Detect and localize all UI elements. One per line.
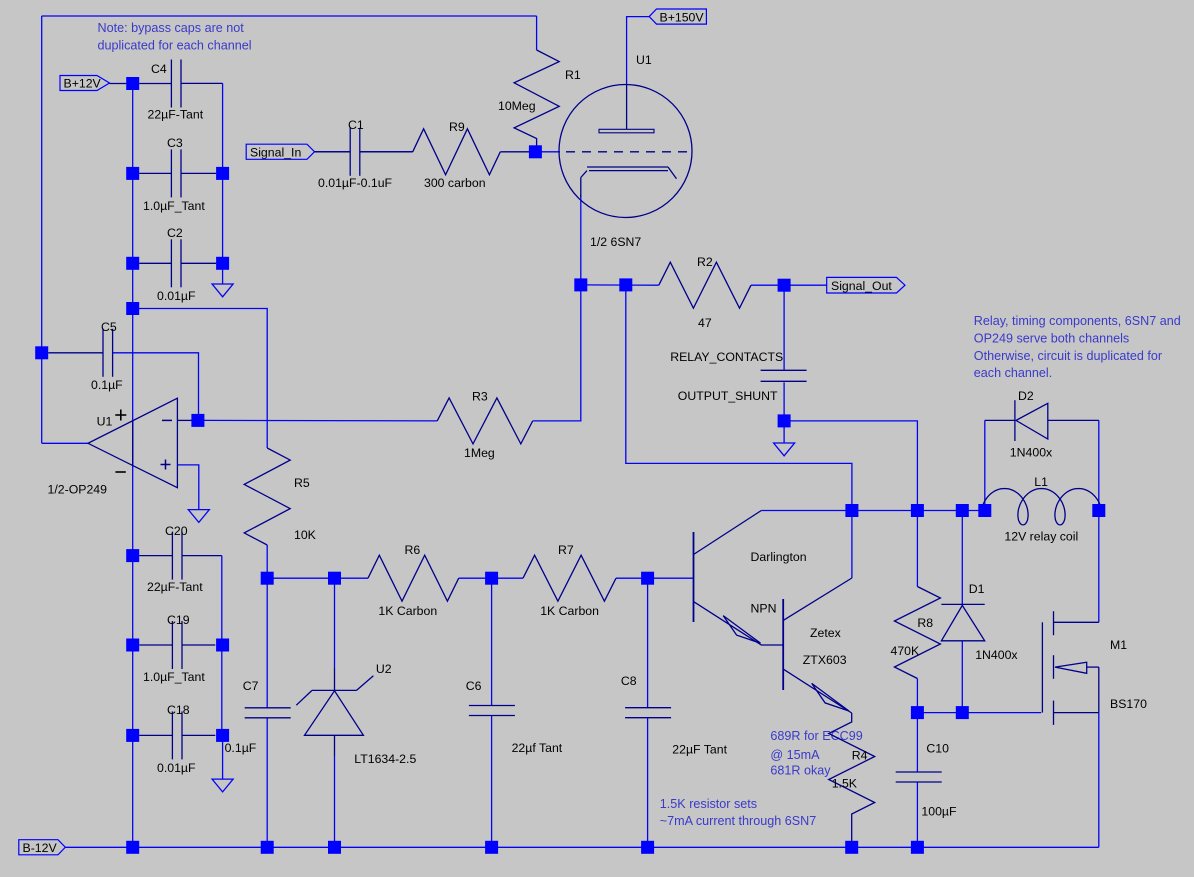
capacitor C1 xyxy=(315,118,413,190)
svg-text:100µF: 100µF xyxy=(921,805,957,819)
shunt reference U2 LT1634-2.5 xyxy=(296,662,416,766)
svg-text:C20: C20 xyxy=(165,524,188,538)
svg-text:R8: R8 xyxy=(917,616,933,630)
wire B+150V feed xyxy=(627,17,650,85)
wire C8 drop top xyxy=(647,578,649,708)
svg-text:681R okay: 681R okay xyxy=(770,764,831,778)
transistor Q2 Zetex ZTX603 xyxy=(783,578,852,713)
capacitor C4 xyxy=(139,60,222,122)
svg-text:C5: C5 xyxy=(101,320,117,334)
svg-text:1.5K resistor sets: 1.5K resistor sets xyxy=(660,797,757,811)
wire output shunt top xyxy=(783,285,785,370)
capacitor C10 xyxy=(896,742,957,819)
resistor R3 xyxy=(437,390,533,461)
svg-text:0.01µF: 0.01µF xyxy=(157,761,196,775)
wire shunt ground stub xyxy=(783,421,785,443)
svg-text:22µF-Tant: 22µF-Tant xyxy=(147,580,203,594)
svg-text:@ 15mA: @ 15mA xyxy=(770,748,820,762)
svg-text:C18: C18 xyxy=(167,703,190,717)
svg-text:300 carbon: 300 carbon xyxy=(424,176,486,190)
wire left feedback drop xyxy=(41,16,43,443)
wire R6-R7 mid xyxy=(459,577,523,579)
port Signal_Out xyxy=(827,277,905,293)
wire output shunt bottom xyxy=(783,382,785,421)
port B-12V xyxy=(19,840,66,855)
svg-text:C4: C4 xyxy=(151,62,167,76)
wire U2 top lead xyxy=(334,578,336,668)
svg-text:C6: C6 xyxy=(466,679,482,693)
svg-text:1K Carbon: 1K Carbon xyxy=(378,604,437,618)
wire R3 left xyxy=(204,419,437,422)
svg-text:duplicated for each channel: duplicated for each channel xyxy=(98,39,252,53)
svg-text:M1: M1 xyxy=(1110,638,1127,652)
svg-text:D1: D1 xyxy=(969,582,985,596)
resistor R8 xyxy=(891,587,941,679)
svg-text:689R for ECC99: 689R for ECC99 xyxy=(770,729,862,743)
svg-text:C10: C10 xyxy=(926,742,949,756)
svg-text:1/2 6SN7: 1/2 6SN7 xyxy=(590,235,641,249)
svg-text:~7mA current through 6SN7: ~7mA current through 6SN7 xyxy=(660,814,816,828)
wire relay row xyxy=(852,510,985,512)
svg-text:22µF-Tant: 22µF-Tant xyxy=(148,108,204,122)
svg-text:Signal_In: Signal_In xyxy=(250,146,301,160)
svg-text:1Meg: 1Meg xyxy=(464,446,495,460)
svg-text:0.1µF: 0.1µF xyxy=(225,741,257,755)
capacitor C2 xyxy=(139,226,216,303)
resistor R1 xyxy=(498,16,581,152)
port B+150V xyxy=(649,9,706,24)
wire R3 right to cathode node xyxy=(533,285,581,421)
wire R8 bottom lead xyxy=(916,679,918,713)
mosfet M1 BS170 xyxy=(1042,611,1147,725)
svg-text:0.01µF: 0.01µF xyxy=(157,289,196,303)
wire D2 right drop xyxy=(1098,420,1100,510)
svg-text:LT1634-2.5: LT1634-2.5 xyxy=(354,752,416,766)
ground at op-amp +input xyxy=(188,510,209,523)
op-amp U1 1/2-OP249 xyxy=(48,398,199,509)
wire grid lead xyxy=(535,151,560,153)
svg-text:L1: L1 xyxy=(1034,475,1048,489)
capacitor C20 xyxy=(139,524,222,735)
capacitor C7 xyxy=(225,679,291,755)
svg-text:OP249 serve both channels: OP249 serve both channels xyxy=(974,331,1129,345)
ground below C18 xyxy=(212,779,233,792)
port Signal_In xyxy=(246,144,350,159)
wire D1 bottom lead xyxy=(961,641,963,713)
wire plate node down xyxy=(626,285,852,511)
svg-text:BS170: BS170 xyxy=(1110,697,1147,711)
wire bypass right rail xyxy=(222,83,224,284)
resistor R2 xyxy=(659,255,751,330)
diode D2 1N400x xyxy=(985,389,1099,460)
svg-text:22µF Tant: 22µF Tant xyxy=(672,743,727,757)
svg-text:R4: R4 xyxy=(852,749,868,763)
wire C7 drop bottom xyxy=(266,718,268,847)
wire D2 left drop xyxy=(984,420,986,510)
svg-text:C7: C7 xyxy=(243,679,259,693)
svg-text:B+12V: B+12V xyxy=(64,77,102,91)
wire C10 top lead xyxy=(916,713,918,772)
wire mosfet source drop xyxy=(1098,713,1100,848)
note relay xyxy=(974,314,1181,380)
wire cathode row xyxy=(581,284,659,286)
svg-text:1K Carbon: 1K Carbon xyxy=(540,604,599,618)
svg-text:C3: C3 xyxy=(167,136,183,150)
svg-text:RELAY_CONTACTS: RELAY_CONTACTS xyxy=(670,350,783,364)
svg-text:10Meg: 10Meg xyxy=(498,99,536,113)
svg-text:Zetex: Zetex xyxy=(810,626,842,640)
resistor R6 xyxy=(368,543,459,618)
wire R2 right to Signal_Out xyxy=(751,284,827,286)
wire mosfet drain drop xyxy=(1098,511,1100,623)
svg-text:12V relay coil: 12V relay coil xyxy=(1004,530,1078,544)
wire C6 drop top xyxy=(491,578,493,705)
note 1.5K resistor xyxy=(660,797,816,828)
wire node to R5 xyxy=(133,309,268,449)
svg-text:1N400x: 1N400x xyxy=(1010,446,1053,460)
svg-text:1N400x: 1N400x xyxy=(975,648,1018,662)
ground at output shunt xyxy=(774,443,795,456)
wire Q2 collector riser xyxy=(851,511,853,579)
note top-left xyxy=(98,21,252,53)
tube U1 1/2 6SN7 xyxy=(559,53,692,249)
svg-text:R2: R2 xyxy=(697,255,713,269)
note 689R xyxy=(770,729,862,778)
svg-text:U1: U1 xyxy=(97,415,113,429)
svg-text:OUTPUT_SHUNT: OUTPUT_SHUNT xyxy=(678,389,778,403)
resistor R9 xyxy=(360,120,536,190)
svg-text:C2: C2 xyxy=(167,226,183,240)
wire R5 bottom lead xyxy=(266,545,268,578)
capacitor C19 xyxy=(139,613,215,684)
svg-text:10K: 10K xyxy=(294,528,317,542)
wire D1 top lead xyxy=(961,511,963,605)
wire junctions xyxy=(35,77,1105,854)
port B+12V xyxy=(60,76,126,91)
svg-text:D2: D2 xyxy=(1018,389,1034,403)
svg-text:47: 47 xyxy=(698,316,712,330)
svg-text:C19: C19 xyxy=(167,613,190,627)
transistor Q1 darlington first xyxy=(694,511,807,646)
capacitor C3 xyxy=(139,136,216,213)
resistor R5 xyxy=(244,448,316,545)
svg-text:Relay, timing components, 6SN7: Relay, timing components, 6SN7 and xyxy=(974,314,1181,328)
resistor R4 xyxy=(829,713,875,847)
svg-text:R7: R7 xyxy=(558,543,574,557)
wire C7 drop top xyxy=(266,578,268,707)
wire top feedback rail xyxy=(42,15,537,17)
svg-text:R6: R6 xyxy=(405,543,421,557)
svg-text:1.5K: 1.5K xyxy=(832,777,858,791)
wire bias row xyxy=(267,577,368,579)
svg-text:U2: U2 xyxy=(376,662,392,676)
wire R7 right to base xyxy=(616,577,694,579)
svg-text:C8: C8 xyxy=(621,674,637,688)
wire cathode drop xyxy=(580,195,582,285)
capacitor C8 xyxy=(621,674,728,757)
svg-text:0.1µF: 0.1µF xyxy=(91,378,123,392)
wire C6 drop bottom xyxy=(491,716,493,848)
svg-text:each channel.: each channel. xyxy=(974,366,1052,380)
ground below C2 xyxy=(212,284,233,297)
wire C8 drop bottom xyxy=(647,718,649,848)
capacitor C18 xyxy=(139,703,222,779)
svg-text:Signal_Out: Signal_Out xyxy=(831,279,892,293)
capacitor C5 xyxy=(48,320,123,392)
wire B+12V rail vertical xyxy=(132,84,134,848)
inductor L1 relay coil xyxy=(982,475,1101,544)
svg-text:C1: C1 xyxy=(348,118,364,132)
svg-text:U1: U1 xyxy=(636,53,652,67)
wire op-amp output xyxy=(42,442,88,444)
diode D1 1N400x xyxy=(941,582,1018,662)
wire B-12V bottom rail xyxy=(65,846,1099,848)
wire C5 right to inverting input xyxy=(113,353,199,421)
capacitor C6 xyxy=(466,679,563,755)
svg-text:Darlington: Darlington xyxy=(751,550,807,564)
svg-text:ZTX603: ZTX603 xyxy=(803,653,847,667)
wire R8 top lead xyxy=(916,511,918,587)
svg-text:NPN: NPN xyxy=(751,602,777,616)
resistor R7 xyxy=(523,543,616,618)
svg-text:1.0µF_Tant: 1.0µF_Tant xyxy=(143,199,205,213)
svg-text:22µf Tant: 22µf Tant xyxy=(512,741,563,755)
svg-text:1/2-OP249: 1/2-OP249 xyxy=(48,483,108,497)
svg-text:Note: bypass caps are not: Note: bypass caps are not xyxy=(98,21,245,35)
wire shunt to relay node xyxy=(784,421,917,511)
svg-text:1.0µF_Tant: 1.0µF_Tant xyxy=(143,670,205,684)
wire darlington collector xyxy=(761,510,852,512)
wire gate row xyxy=(917,712,1041,714)
svg-text:R1: R1 xyxy=(565,68,581,82)
svg-text:B-12V: B-12V xyxy=(23,841,58,855)
svg-text:R5: R5 xyxy=(294,476,310,490)
svg-text:B+150V: B+150V xyxy=(660,10,705,24)
svg-text:R3: R3 xyxy=(472,390,488,404)
svg-text:0.01µF-0.1uF: 0.01µF-0.1uF xyxy=(318,176,393,190)
svg-text:R9: R9 xyxy=(449,120,465,134)
capacitor relay contacts / output shunt xyxy=(670,350,806,403)
wire U2 bottom lead xyxy=(334,756,336,847)
svg-text:470K: 470K xyxy=(891,644,921,658)
svg-text:Otherwise, circuit is duplicat: Otherwise, circuit is duplicated for xyxy=(974,349,1162,363)
wire C10 bottom lead xyxy=(916,782,918,847)
